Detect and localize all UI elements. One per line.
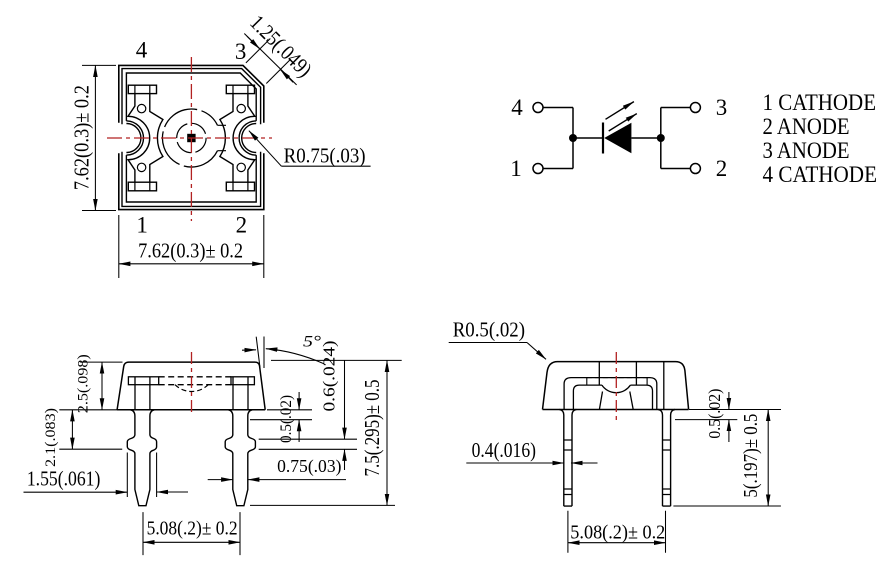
svg-text:5.08(.2)± 0.2: 5.08(.2)± 0.2 <box>147 518 238 540</box>
svg-text:2: 2 <box>236 213 248 238</box>
svg-text:R0.75(.03): R0.75(.03) <box>284 143 366 167</box>
svg-text:0.6(.024): 0.6(.024) <box>320 341 339 412</box>
svg-text:4 CATHODE: 4 CATHODE <box>763 162 878 187</box>
svg-text:0.4(.016): 0.4(.016) <box>472 438 536 462</box>
svg-text:1.55(.061): 1.55(.061) <box>27 466 101 490</box>
svg-text:0.5(.02): 0.5(.02) <box>278 395 295 443</box>
svg-text:2.5(.098): 2.5(.098) <box>76 354 92 413</box>
svg-text:1: 1 <box>510 156 522 181</box>
svg-text:1 CATHODE: 1 CATHODE <box>763 90 877 115</box>
svg-text:5.08(.2)± 0.2: 5.08(.2)± 0.2 <box>570 521 665 543</box>
svg-text:0.5(.02): 0.5(.02) <box>705 389 724 439</box>
svg-text:2: 2 <box>716 156 728 181</box>
svg-text:1: 1 <box>136 213 148 238</box>
svg-text:7.5(.295)± 0.5: 7.5(.295)± 0.5 <box>360 380 384 477</box>
svg-text:0.75(.03): 0.75(.03) <box>277 456 341 477</box>
svg-text:4: 4 <box>511 95 523 120</box>
svg-text:7.62(0.3)± 0.2: 7.62(0.3)± 0.2 <box>69 85 93 190</box>
svg-text:2 ANODE: 2 ANODE <box>763 114 850 139</box>
svg-text:1.25(.049): 1.25(.049) <box>245 10 316 81</box>
svg-text:3: 3 <box>235 39 247 64</box>
svg-text:7.62(0.3)± 0.2: 7.62(0.3)± 0.2 <box>138 238 243 262</box>
svg-text:3 ANODE: 3 ANODE <box>763 138 850 163</box>
svg-text:5°: 5° <box>303 334 322 351</box>
svg-text:5(.197)± 0.5: 5(.197)± 0.5 <box>741 414 762 498</box>
svg-text:2.1(.083): 2.1(.083) <box>43 408 59 467</box>
svg-text:3: 3 <box>716 95 728 120</box>
svg-text:R0.5(.02): R0.5(.02) <box>453 317 525 341</box>
svg-text:4: 4 <box>136 38 148 63</box>
